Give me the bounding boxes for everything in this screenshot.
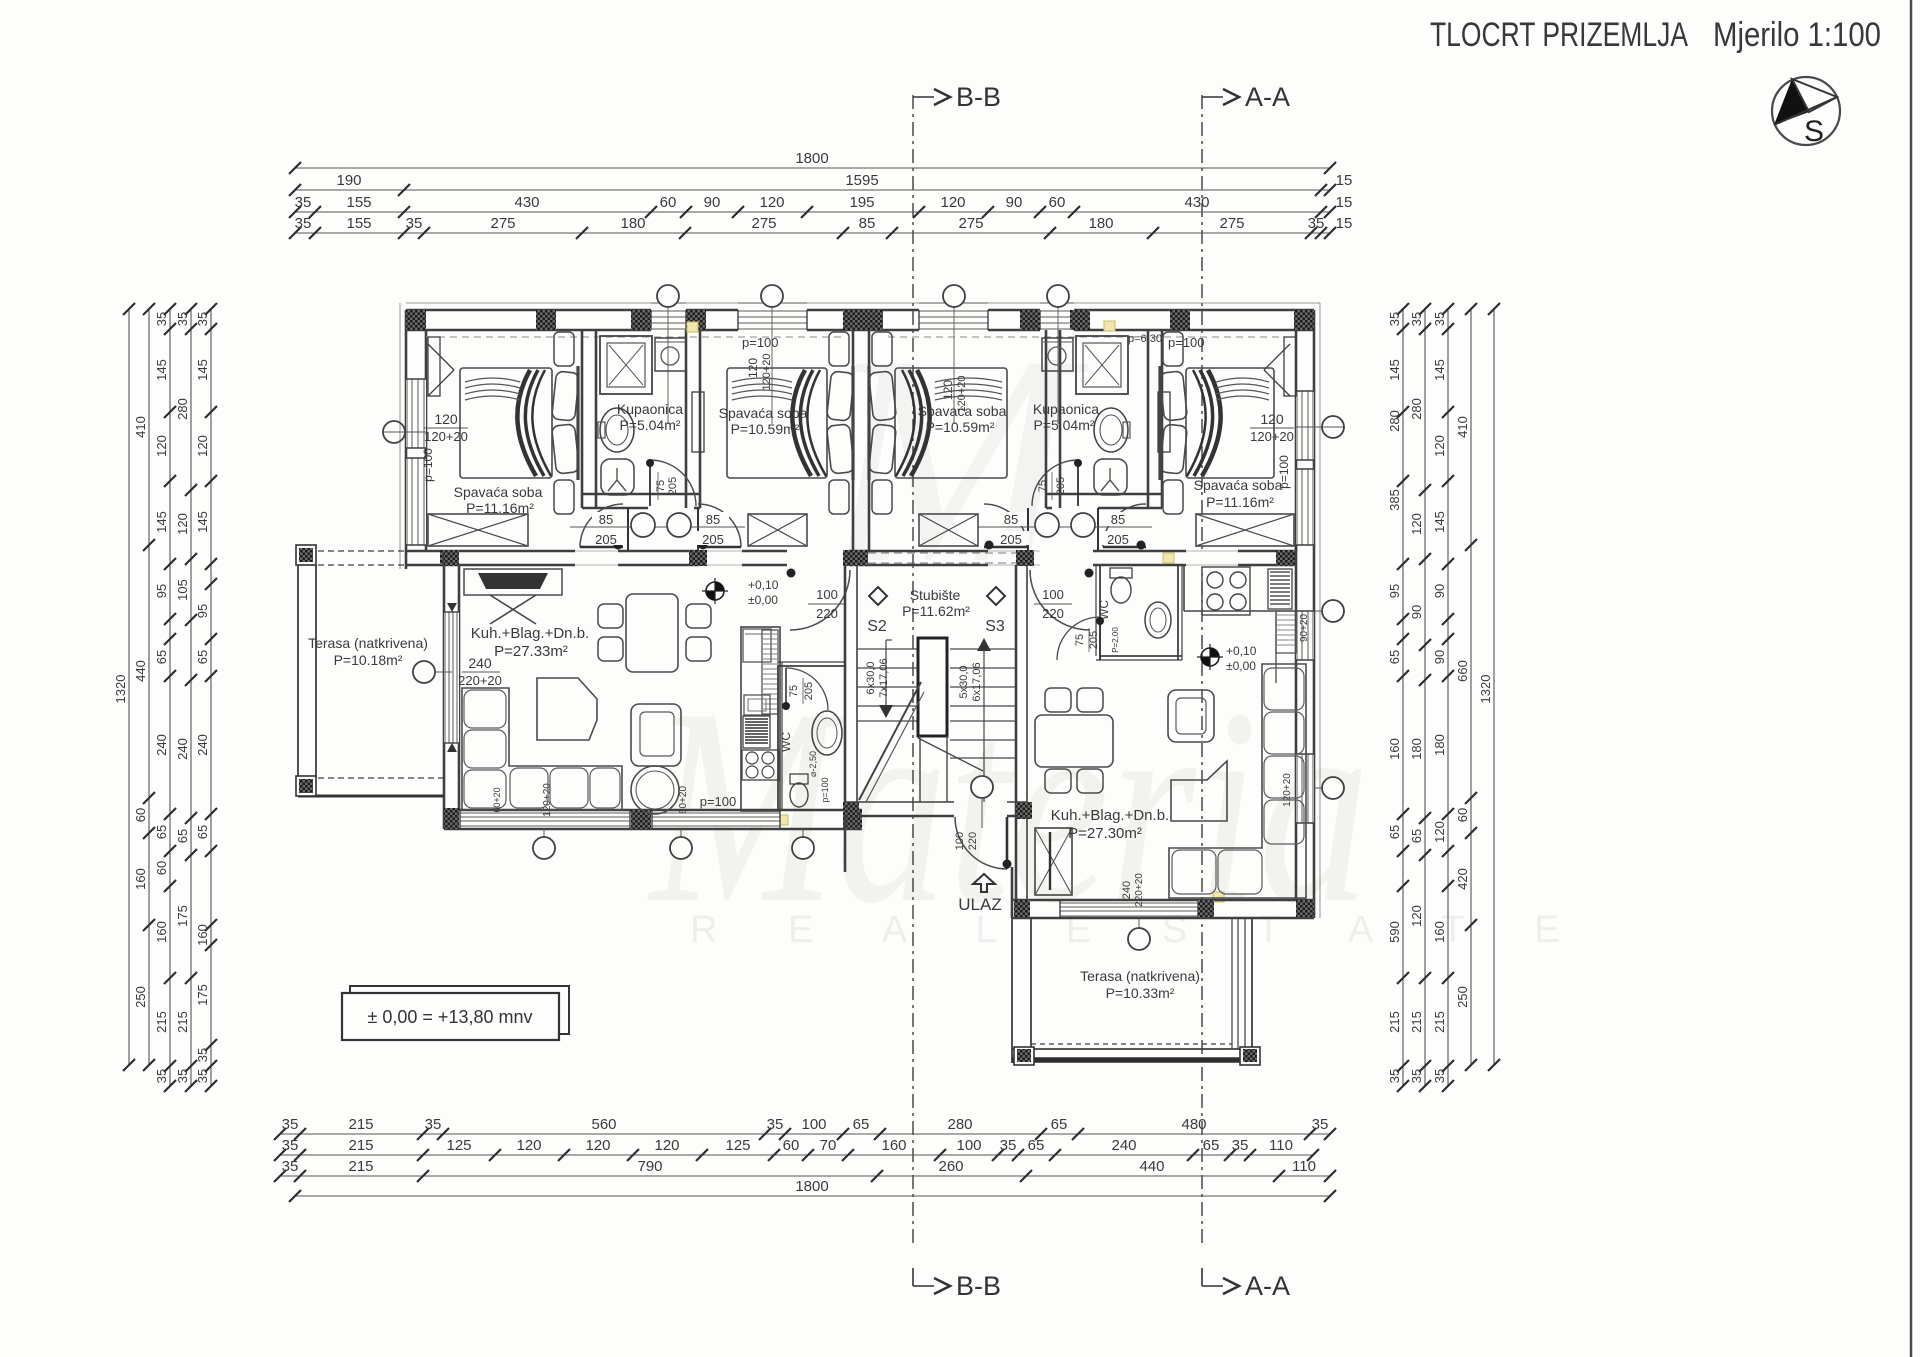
- svg-text:145: 145: [195, 359, 210, 381]
- svg-text:35: 35: [1387, 312, 1402, 326]
- terrace right walls: [1011, 918, 1013, 1063]
- svg-text:60: 60: [660, 194, 677, 211]
- svg-text:280: 280: [175, 398, 190, 420]
- svg-text:120: 120: [175, 513, 190, 535]
- svg-text:220: 220: [967, 832, 979, 850]
- toilet bath2: [1094, 459, 1127, 495]
- svg-text:35: 35: [175, 312, 190, 326]
- svg-text:660: 660: [1455, 660, 1470, 682]
- svg-text:85: 85: [1004, 512, 1018, 527]
- svg-text:240: 240: [175, 738, 190, 760]
- svg-text:A-A: A-A: [1245, 82, 1290, 112]
- svg-text:p=100: p=100: [700, 794, 737, 809]
- svg-text:60: 60: [783, 1137, 800, 1154]
- svg-text:35: 35: [1308, 215, 1325, 232]
- WC basin: [812, 711, 842, 755]
- svg-text:1595: 1595: [845, 172, 878, 189]
- svg-text:35: 35: [1232, 1137, 1249, 1154]
- svg-text:Kupaonica: Kupaonica: [1033, 401, 1099, 417]
- svg-text:160: 160: [195, 924, 210, 946]
- stair up arrows: [885, 640, 887, 706]
- svg-text:M: M: [820, 293, 1092, 625]
- fridge right unit: [1276, 611, 1296, 653]
- svg-text:60: 60: [1049, 194, 1066, 211]
- tall cabinet stripes: [762, 630, 778, 714]
- svg-text:60+20: 60+20: [492, 787, 502, 812]
- door living-corridor left: [790, 570, 850, 630]
- svg-text:160: 160: [133, 868, 148, 890]
- bed 3: [895, 368, 1007, 478]
- svg-text:1320: 1320: [113, 675, 128, 704]
- svg-text:35: 35: [282, 1137, 299, 1154]
- svg-text:790: 790: [637, 1158, 662, 1175]
- svg-text:Kupaonica: Kupaonica: [617, 401, 683, 417]
- bed 4: [1186, 368, 1274, 478]
- svg-text:35: 35: [154, 1069, 169, 1083]
- svg-text:P=5.04m²: P=5.04m²: [619, 417, 680, 433]
- svg-text:35: 35: [1387, 1069, 1402, 1083]
- ULAZ arrow: [973, 874, 995, 892]
- svg-text:Terasa (natkrivena): Terasa (natkrivena): [308, 635, 428, 651]
- svg-text:⌀-2,50: ⌀-2,50: [808, 751, 818, 777]
- armchair left unit: [631, 704, 681, 766]
- svg-text:145: 145: [1432, 511, 1447, 533]
- svg-text:p=100: p=100: [820, 777, 830, 802]
- svg-text:275: 275: [490, 215, 515, 232]
- chairs: [598, 604, 623, 628]
- svg-text:65: 65: [1028, 1137, 1045, 1154]
- svg-text:250: 250: [133, 986, 148, 1008]
- svg-text:260: 260: [938, 1158, 963, 1175]
- WC toilet: [790, 774, 808, 784]
- svg-text:35: 35: [282, 1158, 299, 1175]
- svg-text:60: 60: [154, 861, 169, 875]
- svg-text:65: 65: [853, 1116, 870, 1133]
- section line A-A: [1201, 95, 1203, 1245]
- svg-text:15: 15: [1336, 194, 1353, 211]
- kitchen counter left unit: [741, 627, 780, 811]
- svg-text:35: 35: [195, 1069, 210, 1083]
- svg-text:P=5.04m²: P=5.04m²: [1033, 417, 1094, 433]
- svg-text:125: 125: [725, 1137, 750, 1154]
- divider wall between the two units: [852, 330, 855, 551]
- svg-text:35: 35: [1432, 1069, 1447, 1083]
- svg-text:70: 70: [820, 1137, 837, 1154]
- svg-text:S2: S2: [867, 618, 887, 635]
- svg-text:Kuh.+Blag.+Dn.b.: Kuh.+Blag.+Dn.b.: [1051, 807, 1169, 824]
- svg-text:Spavaća soba: Spavaća soba: [1194, 477, 1283, 493]
- svg-text:220+20: 220+20: [1134, 873, 1145, 907]
- toilet bath1: [601, 459, 634, 495]
- coffee table right unit: [1171, 761, 1227, 821]
- bath2 door: [1032, 460, 1078, 506]
- svg-text:205: 205: [1000, 532, 1022, 547]
- svg-text:+0,10: +0,10: [1226, 644, 1257, 658]
- svg-text:85: 85: [706, 512, 720, 527]
- svg-text:220+20: 220+20: [458, 673, 502, 688]
- stove left unit: [742, 750, 779, 780]
- svg-text:240: 240: [195, 734, 210, 756]
- svg-text:120+20: 120+20: [1282, 773, 1293, 807]
- axis bubble right wall: [1322, 416, 1344, 438]
- svg-text:190: 190: [336, 172, 361, 189]
- svg-text:275: 275: [751, 215, 776, 232]
- svg-text:120: 120: [434, 411, 458, 427]
- svg-text:145: 145: [154, 511, 169, 533]
- svg-text:110: 110: [1292, 1158, 1316, 1175]
- svg-text:7x17,06: 7x17,06: [878, 658, 890, 697]
- S3 marker: [987, 587, 1005, 605]
- svg-text:+0,10: +0,10: [748, 578, 779, 592]
- svg-text:B-B: B-B: [956, 1271, 1001, 1301]
- washing machine bath1: [655, 338, 686, 371]
- svg-text:220: 220: [816, 606, 838, 621]
- round pouf: [631, 766, 679, 814]
- svg-text:90: 90: [704, 194, 721, 211]
- svg-text:P=10.33m²: P=10.33m²: [1106, 985, 1175, 1001]
- svg-text:TLOCRT PRIZEMLJA: TLOCRT PRIZEMLJA: [1430, 16, 1688, 54]
- svg-text:120: 120: [1432, 435, 1447, 457]
- svg-text:60: 60: [1455, 808, 1470, 822]
- svg-text:195: 195: [849, 194, 874, 211]
- svg-text:100: 100: [1042, 587, 1064, 602]
- svg-text:430: 430: [514, 194, 539, 211]
- svg-text:215: 215: [348, 1158, 373, 1175]
- svg-text:110: 110: [1269, 1137, 1293, 1154]
- svg-text:120: 120: [1409, 513, 1424, 535]
- svg-text:90+20: 90+20: [1299, 614, 1310, 643]
- svg-text:215: 215: [348, 1116, 373, 1133]
- dishwasher dark: [743, 716, 770, 748]
- svg-text:175: 175: [175, 905, 190, 927]
- WC room left unit: [777, 666, 779, 810]
- svg-text:240: 240: [1121, 881, 1133, 899]
- svg-text:65: 65: [175, 829, 190, 843]
- svg-text:205: 205: [1088, 631, 1100, 649]
- svg-text:215: 215: [175, 1011, 190, 1033]
- wardrobe bedroom1: [428, 514, 528, 546]
- bed 2: [727, 368, 827, 478]
- svg-text:35: 35: [195, 312, 210, 326]
- svg-text:75: 75: [1074, 634, 1086, 646]
- svg-text:240: 240: [154, 734, 169, 756]
- top dimension lines: [295, 167, 1330, 169]
- svg-text:65: 65: [154, 825, 169, 839]
- svg-text:155: 155: [346, 194, 371, 211]
- svg-text:P=27.33m²: P=27.33m²: [494, 643, 568, 660]
- svg-text:90: 90: [1006, 194, 1023, 211]
- bottom dimension lines: [280, 1133, 1330, 1135]
- bed 1: [460, 368, 552, 478]
- stair axis bubble: [971, 776, 993, 798]
- svg-text:Terasa (natkrivena): Terasa (natkrivena): [1080, 968, 1200, 984]
- svg-text:155: 155: [346, 215, 371, 232]
- board bedroom4: [1158, 392, 1170, 452]
- svg-text:180: 180: [1409, 738, 1424, 760]
- svg-text:35: 35: [406, 215, 423, 232]
- washbasin bath1: [600, 408, 634, 452]
- svg-text:65: 65: [1051, 1116, 1068, 1133]
- svg-text:120: 120: [759, 194, 784, 211]
- svg-text:160: 160: [881, 1137, 906, 1154]
- page border: [1910, 0, 1913, 1357]
- elevation note box: [350, 986, 569, 1034]
- svg-text:440: 440: [133, 660, 148, 682]
- svg-text:560: 560: [591, 1116, 616, 1133]
- svg-text:205: 205: [1055, 477, 1067, 495]
- svg-text:145: 145: [195, 511, 210, 533]
- windows in top wall: [651, 308, 686, 332]
- svg-text:65: 65: [1409, 829, 1424, 843]
- oven: [744, 695, 770, 715]
- bathroom 2 walls: [1045, 330, 1048, 508]
- outer walls: bedroom wing: [406, 309, 1314, 312]
- svg-text:180: 180: [620, 215, 645, 232]
- svg-text:420: 420: [1455, 868, 1470, 890]
- casement marks: [428, 344, 454, 370]
- svg-text:P=11.16m²: P=11.16m²: [466, 500, 534, 516]
- svg-text:6x17,06: 6x17,06: [971, 662, 983, 701]
- svg-text:410: 410: [133, 416, 148, 438]
- svg-text:100: 100: [801, 1116, 826, 1133]
- stair break line: [859, 682, 921, 800]
- svg-text:Stubište: Stubište: [910, 587, 961, 603]
- svg-text:100: 100: [954, 832, 966, 850]
- S2 marker: [869, 587, 887, 605]
- svg-text:85: 85: [859, 215, 876, 232]
- WC right basin: [1145, 602, 1171, 638]
- svg-text:280: 280: [947, 1116, 972, 1133]
- bathroom 1 walls: [581, 330, 584, 508]
- bubble terrace right: [1128, 928, 1150, 950]
- svg-text:65: 65: [1387, 650, 1402, 664]
- svg-text:100: 100: [956, 1137, 981, 1154]
- svg-text:65: 65: [1203, 1137, 1220, 1154]
- svg-text:± 0,00 = +13,80 mnv: ± 0,00 = +13,80 mnv: [368, 1007, 533, 1027]
- fridge: [743, 629, 771, 662]
- svg-text:590: 590: [1387, 921, 1402, 943]
- svg-text:215: 215: [348, 1137, 373, 1154]
- svg-text:215: 215: [1432, 1011, 1447, 1033]
- staircase walls: [844, 565, 847, 816]
- svg-text:p=100: p=100: [421, 448, 435, 482]
- svg-text:P=10.59m²: P=10.59m²: [731, 421, 800, 437]
- svg-text:100: 100: [816, 587, 838, 602]
- svg-text:160: 160: [1387, 738, 1402, 760]
- svg-text:ULAZ: ULAZ: [958, 895, 1001, 914]
- svg-text:5x30,0: 5x30,0: [958, 665, 970, 698]
- svg-text:p=100: p=100: [742, 335, 779, 350]
- svg-text:35: 35: [767, 1116, 784, 1133]
- bottom axis bubbles left unit: [543, 829, 545, 840]
- svg-text:120: 120: [1432, 821, 1447, 843]
- svg-text:75: 75: [1037, 480, 1049, 492]
- svg-text:120: 120: [1409, 905, 1424, 927]
- svg-text:Spavaća soba: Spavaća soba: [719, 405, 808, 421]
- svg-text:205: 205: [595, 532, 617, 547]
- svg-text:35: 35: [175, 1069, 190, 1083]
- svg-text:145: 145: [1387, 359, 1402, 381]
- svg-text:275: 275: [958, 215, 983, 232]
- terrace right pillars: [1014, 1047, 1034, 1065]
- WC right toilet: [1110, 568, 1132, 578]
- svg-text:35: 35: [154, 312, 169, 326]
- svg-text:85: 85: [1111, 512, 1125, 527]
- svg-text:205: 205: [667, 477, 679, 495]
- dining table left unit: [626, 594, 678, 672]
- svg-text:±0,00: ±0,00: [748, 593, 778, 607]
- svg-text:6x30,0: 6x30,0: [865, 661, 877, 694]
- top axis bubbles: [667, 307, 669, 424]
- svg-text:215: 215: [154, 1011, 169, 1033]
- right dimension columns: [1402, 309, 1404, 1086]
- right unit outer walls: [1295, 545, 1298, 900]
- svg-text:120: 120: [1260, 411, 1284, 427]
- svg-text:35: 35: [195, 1048, 210, 1062]
- svg-text:p=6,30: p=6,30: [1128, 333, 1162, 345]
- level marker right unit: [1201, 648, 1219, 666]
- svg-text:120+20: 120+20: [1250, 429, 1294, 444]
- corner sofa right unit: [1169, 664, 1306, 898]
- svg-text:90: 90: [1409, 605, 1424, 619]
- WC right unit walls: [1099, 565, 1101, 660]
- svg-text:90: 90: [1432, 584, 1447, 598]
- living unit left: outer walls: [443, 551, 446, 829]
- wardrobe bedroom2: [748, 514, 807, 546]
- svg-text:35: 35: [295, 215, 312, 232]
- svg-text:35: 35: [1432, 312, 1447, 326]
- svg-text:35: 35: [282, 1116, 299, 1133]
- svg-text:175: 175: [195, 984, 210, 1006]
- svg-text:35: 35: [425, 1116, 442, 1133]
- svg-text:120: 120: [516, 1137, 541, 1154]
- svg-text:A-A: A-A: [1245, 1271, 1290, 1301]
- door corridor-right unit: [1030, 570, 1090, 630]
- window left wall: [406, 379, 426, 448]
- bedroom door arcs right unit: [1027, 508, 1029, 551]
- svg-text:90: 90: [1432, 650, 1447, 664]
- stove right unit: [1202, 567, 1250, 615]
- svg-text:Spavaća soba: Spavaća soba: [918, 403, 1007, 419]
- level marker left unit: [706, 582, 724, 600]
- svg-text:95: 95: [1387, 584, 1402, 598]
- svg-text:1800: 1800: [795, 1178, 828, 1195]
- watermark: [647, 293, 1590, 961]
- mid wall between bedroom band and living band: [406, 550, 1296, 553]
- svg-text:120: 120: [154, 435, 169, 457]
- svg-text:410: 410: [1455, 416, 1470, 438]
- svg-text:240: 240: [1111, 1137, 1136, 1154]
- entry porch walls: [844, 816, 847, 872]
- svg-text:35: 35: [295, 194, 312, 211]
- washing machine bath2: [1042, 338, 1073, 371]
- wardrobe bedroom3: [919, 514, 978, 546]
- svg-text:160: 160: [1432, 921, 1447, 943]
- svg-text:75: 75: [788, 685, 800, 697]
- TV cabinet: [464, 569, 562, 595]
- svg-text:±0,00: ±0,00: [1226, 659, 1256, 673]
- svg-text:65: 65: [154, 650, 169, 664]
- svg-text:Spavaća soba: Spavaća soba: [454, 484, 543, 500]
- dining table right unit: [1035, 715, 1113, 767]
- terrace pillars: [296, 545, 316, 565]
- bath1 door: [650, 460, 696, 506]
- svg-text:75: 75: [655, 480, 667, 492]
- svg-text:215: 215: [1409, 1011, 1424, 1033]
- svg-text:95: 95: [154, 584, 169, 598]
- WC door: [786, 668, 828, 710]
- stair treads: [857, 648, 918, 650]
- svg-text:205: 205: [702, 532, 724, 547]
- svg-text:480: 480: [1181, 1116, 1206, 1133]
- sink right unit: [1268, 569, 1292, 609]
- bedroom door arcs left unit: [627, 508, 629, 551]
- svg-text:1320: 1320: [1478, 675, 1493, 704]
- svg-text:440: 440: [1139, 1158, 1164, 1175]
- svg-text:120: 120: [195, 435, 210, 457]
- WC right door: [1057, 617, 1100, 660]
- axis bubble left wall: [383, 421, 405, 443]
- svg-text:145: 145: [1432, 359, 1447, 381]
- washbasin bath2: [1094, 408, 1128, 452]
- svg-text:430: 430: [1184, 194, 1209, 211]
- svg-text:120+20: 120+20: [424, 429, 468, 444]
- terrace axis bubble: [413, 661, 435, 683]
- svg-text:P=2,00: P=2,00: [1111, 627, 1120, 653]
- svg-text:35: 35: [1409, 312, 1424, 326]
- svg-text:60: 60: [133, 808, 148, 822]
- shower bath2: [1076, 336, 1128, 394]
- svg-text:280: 280: [1387, 410, 1402, 432]
- svg-text:160: 160: [154, 921, 169, 943]
- svg-text:35: 35: [1409, 1069, 1424, 1083]
- svg-text:35: 35: [1000, 1137, 1017, 1154]
- board bedroom2: [692, 392, 704, 452]
- svg-text:Kuh.+Blag.+Dn.b.: Kuh.+Blag.+Dn.b.: [471, 625, 589, 642]
- svg-text:250: 250: [1455, 986, 1470, 1008]
- svg-text:p=100: p=100: [1168, 335, 1205, 350]
- entry door arc: [955, 817, 1007, 869]
- svg-text:275: 275: [1219, 215, 1244, 232]
- svg-text:385: 385: [1387, 489, 1402, 511]
- svg-text:280: 280: [1409, 398, 1424, 420]
- svg-text:120: 120: [654, 1137, 679, 1154]
- svg-text:1800: 1800: [795, 150, 828, 167]
- svg-text:B-B: B-B: [956, 82, 1001, 112]
- armchair right unit: [1168, 690, 1214, 742]
- terrace left walls: [297, 565, 299, 778]
- svg-text:P=27.30m²: P=27.30m²: [1068, 825, 1142, 842]
- svg-text:215: 215: [1387, 1011, 1402, 1033]
- left dimension columns: [128, 309, 130, 1065]
- svg-text:240: 240: [468, 655, 492, 671]
- svg-text:120: 120: [585, 1137, 610, 1154]
- coffee table: [537, 678, 597, 740]
- svg-text:Mjerilo 1:100: Mjerilo 1:100: [1713, 16, 1881, 54]
- section line B-B: [912, 95, 914, 1245]
- svg-text:120: 120: [940, 194, 965, 211]
- compass (north arrow): [1772, 77, 1840, 145]
- riser circles left: [631, 513, 655, 537]
- corner sofa left unit: [462, 688, 622, 810]
- shower bath1: [600, 336, 652, 394]
- wardrobe bedroom4: [1196, 514, 1294, 546]
- svg-text:P=11.62m²: P=11.62m²: [902, 603, 970, 619]
- svg-text:S3: S3: [985, 618, 1005, 635]
- svg-text:205: 205: [803, 682, 815, 700]
- svg-text:15: 15: [1336, 172, 1353, 189]
- wall pillars (top): [406, 310, 426, 330]
